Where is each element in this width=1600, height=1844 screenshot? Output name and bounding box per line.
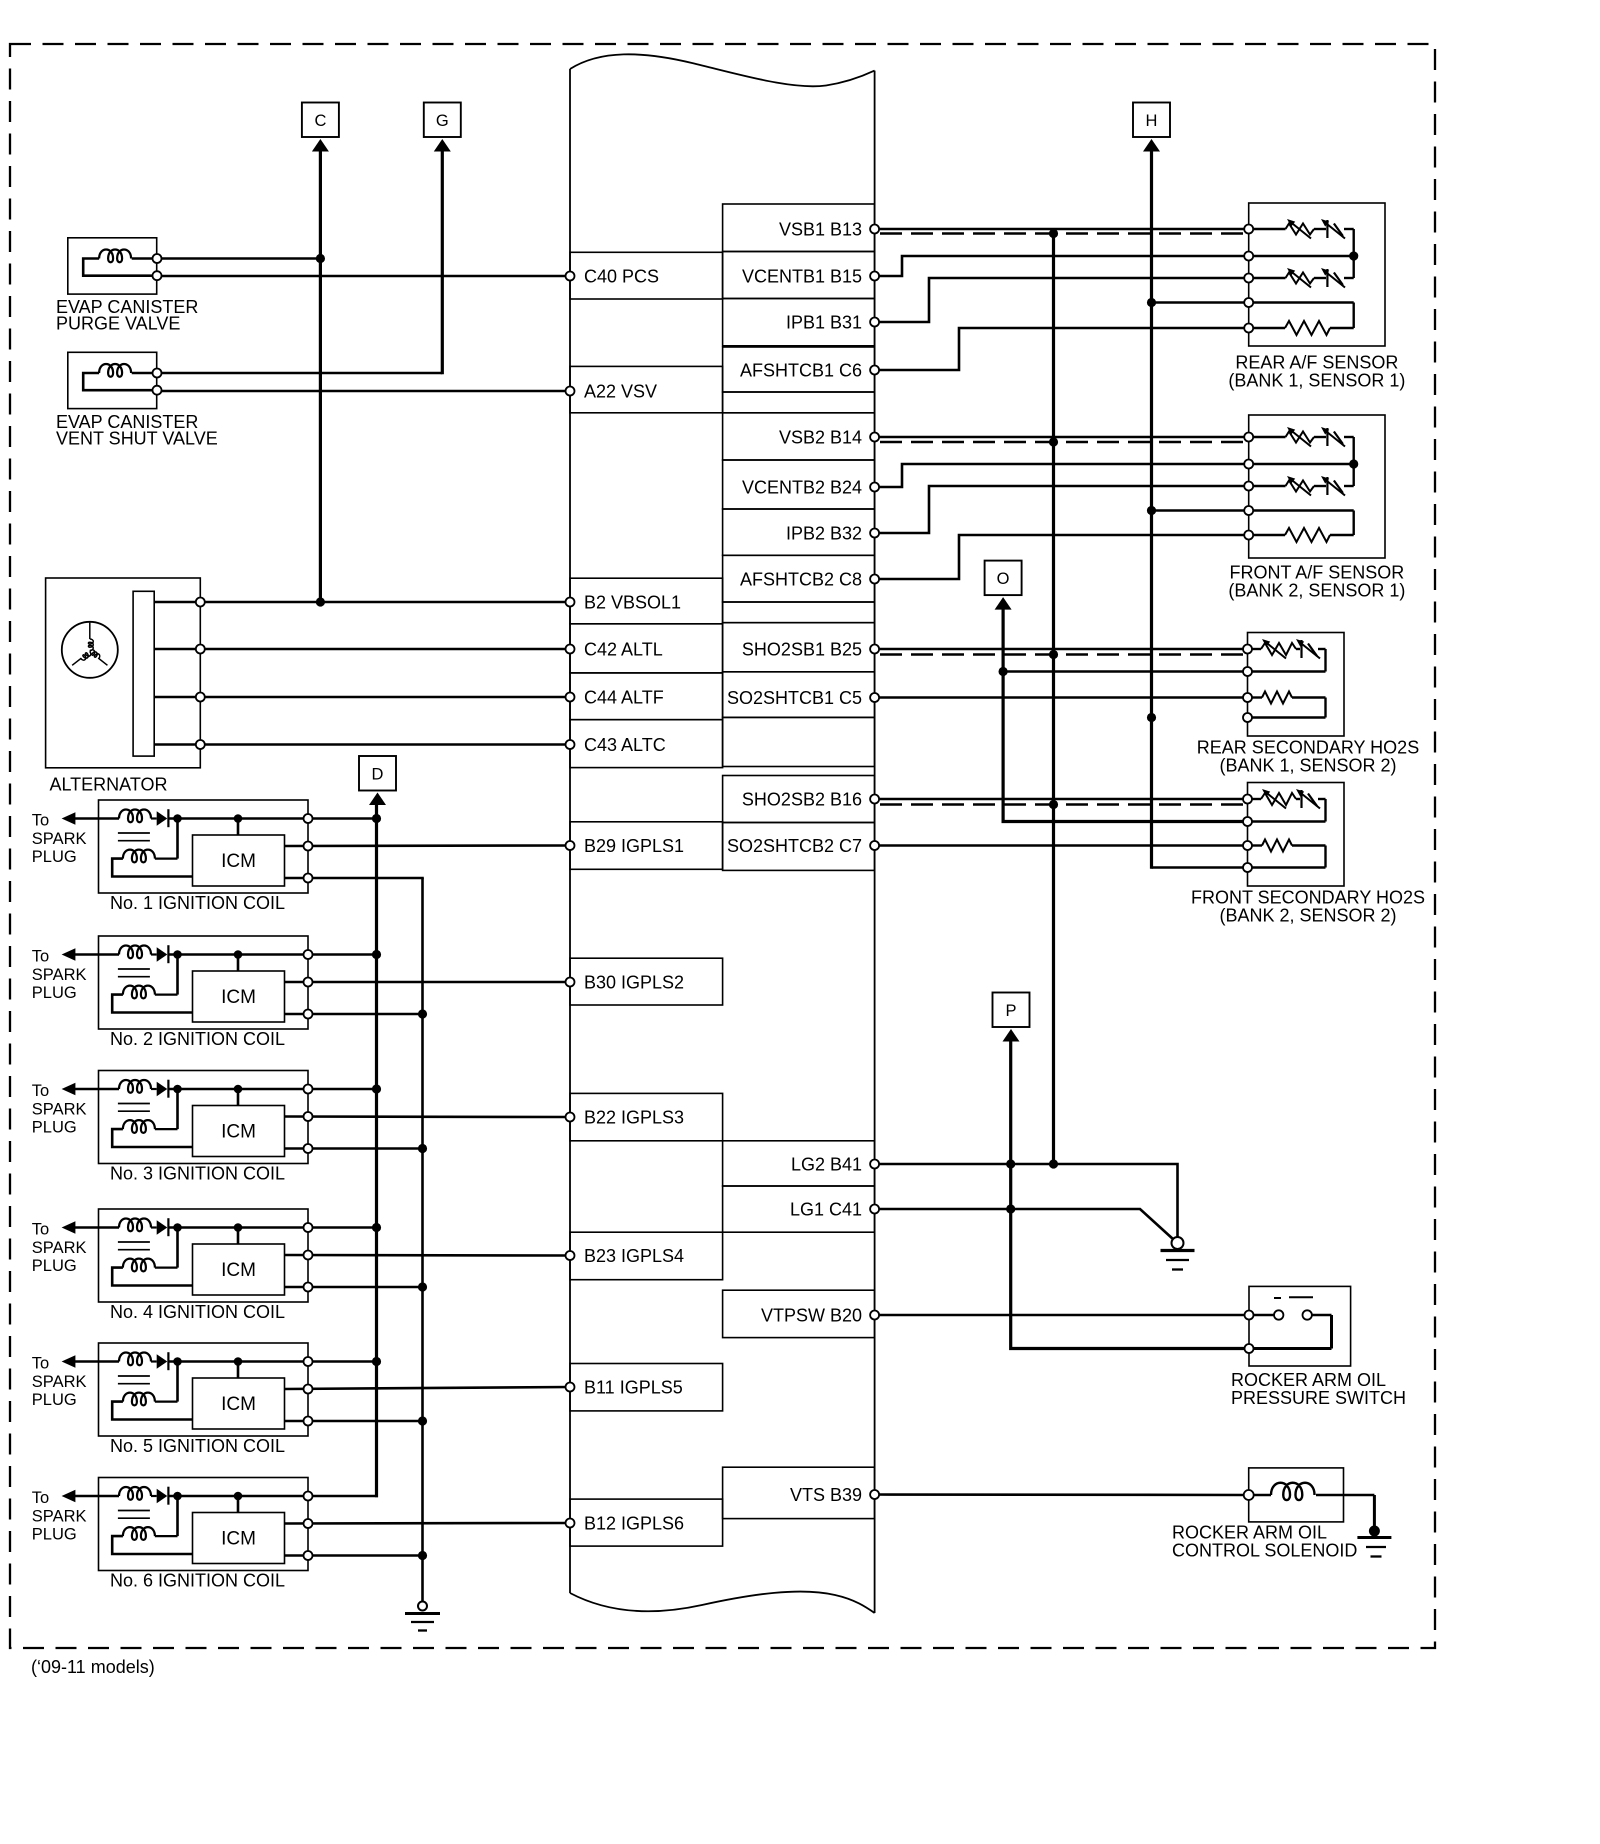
label REAR A/F SENSOR <box>1228 353 1405 391</box>
junction dot shield bus / LG2 B41 wire <box>1049 1159 1058 1168</box>
label EVAP CANISTER VENT SHUT VALVE <box>56 412 218 449</box>
wire coil 3 pin 3 to ground bus <box>285 1147 423 1150</box>
spark plug arrow coil 5 <box>62 1355 76 1368</box>
ICM module coil 6 <box>193 1496 285 1564</box>
ECM pin B2 VBSOL1 <box>566 598 575 607</box>
wire vent shut valve pin 1 to connector G stem <box>157 372 442 375</box>
svg-text:No. 2 IGNITION COIL: No. 2 IGNITION COIL <box>110 1029 285 1049</box>
svg-text:REAR SECONDARY HO2S: REAR SECONDARY HO2S <box>1197 738 1419 758</box>
svg-text:SHO2SB2 B16: SHO2SB2 B16 <box>742 790 862 810</box>
ECM pin cell B11 IGPLS5 <box>570 1364 723 1411</box>
svg-text:To: To <box>32 1082 49 1100</box>
svg-text:VTPSW B20: VTPSW B20 <box>761 1306 862 1326</box>
ECM body outline <box>570 54 875 1613</box>
junction dot O stem / rear secondary HO2S pin 2 wire <box>999 667 1008 676</box>
EVAP canister purge valve pin 1 <box>153 254 162 263</box>
ECM pin cell C44 ALTF <box>570 673 723 720</box>
svg-text:FRONT SECONDARY HO2S: FRONT SECONDARY HO2S <box>1191 888 1425 908</box>
junction dot ICM feed coil 1 <box>234 814 243 823</box>
wire coil 4 pin 2 (IGPLS4) to ECM <box>285 1254 571 1257</box>
junction dot H stem / front A-F sensor pin 4 <box>1147 506 1156 515</box>
label ALTERNATOR <box>50 775 168 795</box>
ECM pin SO2SHTCB2 C7 <box>870 841 879 850</box>
svg-text:SO2SHTCB1 C5: SO2SHTCB1 C5 <box>727 688 862 708</box>
svg-text:SPARK: SPARK <box>32 1508 87 1526</box>
ECM pin cell spacer cell <box>723 602 875 623</box>
ECM pin SHO2SB1 B25 <box>870 645 879 654</box>
wire coil 1 pin 3 to ground bus <box>285 877 424 880</box>
svg-text:ICM: ICM <box>221 1394 256 1415</box>
ECM pin C43 ALTC <box>566 740 575 749</box>
junction dot ground bus coil 4 <box>418 1282 427 1291</box>
rear secondary HO2S pin 1 <box>1243 645 1252 654</box>
ECM pin cell VCENTB2 B24 <box>723 460 875 509</box>
wire ECM AFSHTCB1 C6 to rear A/F pin 5 <box>875 328 1249 370</box>
rear secondary HO2S pin 2 <box>1243 667 1252 676</box>
ECM pin C40 PCS <box>566 272 575 281</box>
svg-text:LG2 B41: LG2 B41 <box>791 1155 862 1175</box>
junction dot ICM feed coil 5 <box>234 1357 243 1366</box>
wire ECM SO2SHTCB1 C5 to rear secondary HO2S pin 3 <box>875 696 1248 699</box>
shield VSB1 B13 <box>880 232 1248 234</box>
dashed page border <box>10 44 1435 1648</box>
ECM pin cell SO2SHTCB2 C7 <box>723 823 875 871</box>
svg-text:B2 VBSOL1: B2 VBSOL1 <box>584 593 681 613</box>
junction dot shield bus / VSB1 B13 shield <box>1049 229 1058 238</box>
svg-text:No. 3 IGNITION COIL: No. 3 IGNITION COIL <box>110 1164 285 1184</box>
label To SPARK PLUG (coil 4) <box>32 1221 87 1276</box>
svg-text:D: D <box>372 766 384 784</box>
wire ignition coil ground bus <box>421 878 424 1602</box>
coil 1 pin 2 <box>304 842 313 851</box>
ECM pin cell C43 ALTC <box>570 720 723 768</box>
svg-text:C40 PCS: C40 PCS <box>584 267 659 287</box>
front secondary HO2S pin 1 <box>1243 795 1252 804</box>
wire ECM LG2 B41 to chassis ground <box>875 1164 1178 1237</box>
ECM pin VSB2 B14 <box>870 433 879 442</box>
svg-text:VCENTB1 B15: VCENTB1 B15 <box>742 267 862 287</box>
ECM pin B29 IGPLS1 <box>566 841 575 850</box>
coil 3 pin 2 <box>304 1112 313 1121</box>
junction dot C stem / purge valve wire <box>316 254 325 263</box>
label To SPARK PLUG (coil 2) <box>32 948 87 1003</box>
junction dot H stem / rear A-F sensor pin 4 <box>1147 298 1156 307</box>
wire coil 2 pin 2 (IGPLS2) to ECM <box>285 981 571 984</box>
ignition coil No.4 <box>75 1209 308 1302</box>
rocker arm oil pressure switch <box>1249 1286 1351 1366</box>
solenoid pin 1 <box>1244 1490 1254 1500</box>
ECM pin cell B2 VBSOL1 <box>570 578 723 624</box>
ECM pin VCENTB1 B15 <box>870 272 879 281</box>
alternator pin 1 <box>196 598 205 607</box>
wire alternator pin 3 to ECM C44 ALTF <box>154 696 570 699</box>
wire shield drain bus (x=1053) down to LG2 B41 wire <box>1052 234 1055 1165</box>
ignition coil No.6 <box>75 1478 308 1571</box>
svg-text:SO2SHTCB2 C7: SO2SHTCB2 C7 <box>727 836 862 856</box>
wire alternator pin 1 to ECM B2 VBSOL1 <box>154 601 570 604</box>
ECM pin cell B22 IGPLS3 <box>570 1093 723 1140</box>
alternator pin 4 <box>196 740 205 749</box>
rear A/F sensor pin 2 <box>1244 252 1253 261</box>
junction dot P stem / LG2 B41 wire <box>1006 1159 1015 1168</box>
ground symbol (solenoid) <box>1357 1526 1391 1557</box>
svg-text:B11 IGPLS5: B11 IGPLS5 <box>584 1378 683 1398</box>
EVAP canister purge valve pin 2 <box>153 271 162 280</box>
front A/F sensor pin 2 <box>1244 460 1253 469</box>
label ROCKER ARM OIL CONTROL SOLENOID <box>1172 1523 1357 1561</box>
ground symbol (ignition coils) <box>405 1602 440 1631</box>
ICM module coil 4 <box>193 1228 285 1296</box>
front secondary HO2S <box>1248 783 1345 887</box>
label ROCKER ARM OIL PRESSURE SWITCH <box>1231 1370 1406 1408</box>
wire coil 2 pin 1 to D stem <box>308 953 377 956</box>
connector C <box>302 103 339 152</box>
svg-text:C42 ALTL: C42 ALTL <box>584 640 663 660</box>
ECM pin cell B12 IGPLS6 <box>570 1499 723 1546</box>
label EVAP CANISTER PURGE VALVE <box>56 297 198 334</box>
wire coil 6 pin 3 to ground bus <box>285 1554 423 1557</box>
wire coil 1 pin 2 (IGPLS1) to ECM <box>285 844 571 847</box>
svg-text:ICM: ICM <box>221 851 256 872</box>
junction dot ICM feed coil 4 <box>234 1223 243 1232</box>
svg-text:CONTROL SOLENOID: CONTROL SOLENOID <box>1172 1541 1357 1561</box>
wire ECM LG1 C41 to chassis ground <box>875 1209 1174 1240</box>
svg-text:To: To <box>32 1489 49 1507</box>
ECM pin cell LG2 B41 <box>723 1141 875 1186</box>
ECM pin IPB2 B32 <box>870 529 879 538</box>
alternator pin 2 <box>196 645 205 654</box>
shield SHO2SB1 B25 <box>880 653 1247 655</box>
svg-text:(BANK 1, SENSOR 2): (BANK 1, SENSOR 2) <box>1219 756 1396 776</box>
coil 3 pin 1 <box>304 1085 313 1094</box>
ECM pin A22 VSV <box>566 387 575 396</box>
ignition coil No.5 <box>75 1343 308 1436</box>
rear secondary HO2S <box>1248 633 1345 737</box>
front A/F sensor pin 3 <box>1244 482 1253 491</box>
front secondary HO2S pin 3 <box>1243 841 1252 850</box>
svg-text:PLUG: PLUG <box>32 1526 77 1544</box>
svg-text:(‘09-11 models): (‘09-11 models) <box>31 1657 155 1677</box>
label No. 5 IGNITION COIL <box>110 1436 285 1456</box>
svg-text:VSB1 B13: VSB1 B13 <box>779 220 862 240</box>
svg-text:O: O <box>997 570 1010 588</box>
ECM pin B23 IGPLS4 <box>566 1251 575 1260</box>
wire vent shut valve pin 2 to ECM A22 VSV <box>157 390 570 393</box>
ECM pin cell C42 ALTL <box>570 624 723 673</box>
wire ECM IPB2 B32 to front A/F pin 3 <box>875 486 1249 533</box>
svg-text:B12 IGPLS6: B12 IGPLS6 <box>584 1514 684 1534</box>
ECM pin cell B30 IGPLS2 <box>570 958 723 1005</box>
wire ECM SHO2SB1 B25 to rear secondary HO2S pin 1 <box>875 648 1248 651</box>
rear A/F sensor pin 1 <box>1244 225 1253 234</box>
spark plug arrow coil 4 <box>62 1221 76 1234</box>
junction dot D stem coil 3 <box>372 1084 381 1093</box>
svg-text:ICM: ICM <box>221 987 256 1008</box>
svg-text:(BANK 1, SENSOR 1): (BANK 1, SENSOR 1) <box>1228 371 1405 391</box>
rear secondary HO2S pin 4 <box>1243 713 1252 722</box>
svg-text:PLUG: PLUG <box>32 848 77 866</box>
ECM pin LG2 B41 <box>870 1160 879 1169</box>
front A/F sensor pin 4 <box>1244 506 1253 515</box>
front A/F sensor pin 1 <box>1244 433 1253 442</box>
svg-text:VSB2 B14: VSB2 B14 <box>779 428 862 448</box>
svg-text:SHO2SB1 B25: SHO2SB1 B25 <box>742 640 862 660</box>
wire coil 1 pin 1 to D stem <box>308 817 377 820</box>
ECM pin IPB1 B31 <box>870 318 879 327</box>
svg-text:ICM: ICM <box>221 1260 256 1281</box>
svg-text:PLUG: PLUG <box>32 1119 77 1137</box>
ECM pin AFSHTCB1 C6 <box>870 366 879 375</box>
ECM pin cell IPB2 B32 <box>723 509 875 555</box>
rocker switch pin 2 <box>1245 1344 1254 1353</box>
wire coil 3 pin 2 (IGPLS3) to ECM <box>285 1115 571 1118</box>
label No. 4 IGNITION COIL <box>110 1302 285 1322</box>
ECM pin VTPSW B20 <box>870 1311 879 1320</box>
solenoid valve EVAP canister vent shut valve <box>68 352 158 408</box>
coil 1 pin 3 <box>304 874 313 883</box>
svg-text:C44 ALTF: C44 ALTF <box>584 688 664 708</box>
wire ECM VCENTB1 B15 to rear A/F pin 2 <box>875 256 1249 276</box>
svg-text:IPB2 B32: IPB2 B32 <box>786 524 862 544</box>
wire O stem to rear secondary HO2S pin 2 <box>1003 670 1247 673</box>
front secondary HO2S pin 2 <box>1243 817 1252 826</box>
wire ECM SO2SHTCB2 C7 to front secondary HO2S pin 3 <box>875 844 1248 847</box>
ECM pin B12 IGPLS6 <box>566 1519 575 1528</box>
svg-text:PLUG: PLUG <box>32 984 77 1002</box>
shield VSB2 B14 <box>880 441 1248 443</box>
coil 5 pin 2 <box>304 1385 313 1394</box>
wire coil 4 pin 3 to ground bus <box>285 1286 423 1289</box>
front A/F sensor pin 5 <box>1244 531 1253 540</box>
junction dot ICM feed coil 2 <box>234 950 243 959</box>
connector D <box>359 756 396 805</box>
wire connector G stem down to vent shut valve wire <box>441 150 444 374</box>
ECM pin cell SHO2SB2 B16 <box>723 776 875 823</box>
ECM pin SO2SHTCB1 C5 <box>870 693 879 702</box>
spark plug arrow coil 3 <box>62 1083 76 1096</box>
junction dot P stem / LG1 C41 wire <box>1006 1204 1015 1213</box>
svg-text:G: G <box>436 112 449 130</box>
wire ECM VSB2 B14 to front A/F pin 1 <box>875 436 1249 439</box>
wire alternator pin 2 to ECM C42 ALTL <box>154 648 570 651</box>
svg-text:ICM: ICM <box>221 1529 256 1550</box>
svg-text:No. 5 IGNITION COIL: No. 5 IGNITION COIL <box>110 1436 285 1456</box>
note 09-11 models <box>31 1657 155 1677</box>
ECM pin B11 IGPLS5 <box>566 1383 575 1392</box>
svg-text:LG1 C41: LG1 C41 <box>790 1200 862 1220</box>
ECM pin cell IPB1 B31 <box>723 299 875 346</box>
wire ECM AFSHTCB2 C8 to front A/F pin 5 <box>875 535 1249 579</box>
svg-text:B23 IGPLS4: B23 IGPLS4 <box>584 1246 684 1266</box>
ECM pin cell spacer cell <box>723 717 875 766</box>
rear secondary HO2S pin 3 <box>1243 693 1252 702</box>
wire ECM VTS B39 to solenoid pin 1 <box>875 1493 1249 1496</box>
ECM pin LG1 C41 <box>870 1205 879 1214</box>
ECM pin cell AFSHTCB1 C6 <box>723 347 875 392</box>
label No. 6 IGNITION COIL <box>110 1571 285 1591</box>
svg-text:B29 IGPLS1: B29 IGPLS1 <box>584 836 684 856</box>
wire ECM SHO2SB2 B16 to front secondary HO2S pin 1 <box>875 798 1248 801</box>
label No. 2 IGNITION COIL <box>110 1029 285 1049</box>
ECM pin VTS B39 <box>870 1490 879 1499</box>
rocker arm oil control solenoid <box>1249 1468 1375 1531</box>
ICM module coil 3 <box>193 1089 285 1157</box>
label To SPARK PLUG (coil 1) <box>32 812 87 867</box>
rear A/F sensor pin 4 <box>1244 298 1253 307</box>
ECM pin cell C40 PCS <box>570 252 723 299</box>
wire coil 5 pin 3 to ground bus <box>285 1420 423 1423</box>
coil 2 pin 1 <box>304 950 313 959</box>
label FRONT SECONDARY HO2S <box>1191 888 1425 926</box>
rear A/F sensor <box>1249 203 1385 346</box>
svg-text:To: To <box>32 948 49 966</box>
wire purge valve pin 2 to ECM C40 PCS <box>157 275 570 278</box>
ECM pin cell SO2SHTCB1 C5 <box>723 672 875 718</box>
ignition coil No.1 <box>75 800 308 893</box>
svg-text:To: To <box>32 1221 49 1239</box>
junction dot ICM feed coil 3 <box>234 1085 243 1094</box>
label FRONT A/F SENSOR <box>1228 563 1405 601</box>
junction dot D stem coil 2 <box>372 950 381 959</box>
chassis ground symbol G101 <box>1161 1237 1195 1270</box>
wire ECM VCENTB2 B24 to front A/F pin 2 <box>875 464 1249 487</box>
EVAP canister vent shut valve pin 2 <box>153 386 162 395</box>
wire H stem to rear A/F pin 4 <box>1152 301 1249 304</box>
svg-text:AFSHTCB2 C8: AFSHTCB2 C8 <box>740 570 862 590</box>
wire H stem to front A/F pin 4 <box>1152 509 1249 512</box>
ECM pin VSB1 B13 <box>870 225 879 234</box>
solenoid valve EVAP canister purge valve <box>68 238 158 294</box>
EVAP canister vent shut valve pin 1 <box>153 369 162 378</box>
ECM pin cell A22 VSV <box>570 366 723 412</box>
wire ECM IPB1 B31 to rear A/F pin 3 <box>875 278 1249 322</box>
svg-text:ROCKER ARM OIL: ROCKER ARM OIL <box>1231 1370 1386 1390</box>
wire connector C stem down to B2 VBSOL1 wire <box>319 150 322 602</box>
coil 2 pin 2 <box>304 978 313 987</box>
coil 6 pin 2 <box>304 1519 313 1528</box>
ECM pin cell LG1 C41 <box>723 1186 875 1232</box>
wire connector O stem down to front secondary HO2S pin 2 <box>1003 608 1247 822</box>
coil 5 pin 1 <box>304 1357 313 1366</box>
ECM pin cell VTS B39 <box>723 1467 875 1518</box>
junction dot shield bus / VSB2 B14 shield <box>1049 437 1058 446</box>
svg-text:ROCKER ARM OIL: ROCKER ARM OIL <box>1172 1523 1327 1543</box>
svg-text:SPARK: SPARK <box>32 1373 87 1391</box>
shield SHO2SB2 B16 <box>880 803 1247 805</box>
svg-text:PLUG: PLUG <box>32 1257 77 1275</box>
wire connector D stem down to No.6 ignition coil pin 1 <box>375 804 378 1498</box>
label No. 3 IGNITION COIL <box>110 1164 285 1184</box>
connector G <box>424 103 461 152</box>
svg-text:No. 1 IGNITION COIL: No. 1 IGNITION COIL <box>110 893 285 913</box>
junction dot ICM feed coil 6 <box>234 1492 243 1501</box>
connector H <box>1133 103 1170 152</box>
svg-text:PLUG: PLUG <box>32 1391 77 1409</box>
wire coil 3 pin 1 to D stem <box>308 1088 377 1091</box>
svg-text:AFSHTCB1 C6: AFSHTCB1 C6 <box>740 361 862 381</box>
front A/F sensor <box>1249 415 1385 558</box>
svg-text:VCENTB2 B24: VCENTB2 B24 <box>742 478 862 498</box>
svg-text:A22 VSV: A22 VSV <box>584 382 657 402</box>
ECM pin cell spacer cell <box>723 392 875 413</box>
ECM pin C44 ALTF <box>566 693 575 702</box>
ECM pin SHO2SB2 B16 <box>870 795 879 804</box>
ECM pin B30 IGPLS2 <box>566 978 575 987</box>
coil 6 pin 1 <box>304 1492 313 1501</box>
alternator <box>46 578 201 768</box>
coil 4 pin 1 <box>304 1223 313 1232</box>
svg-text:SPARK: SPARK <box>32 1101 87 1119</box>
svg-text:P: P <box>1005 1002 1016 1020</box>
ICM module coil 2 <box>193 955 285 1023</box>
ECM pin cell VCENTB1 B15 <box>723 252 875 299</box>
junction dot ground bus coil 6 <box>418 1551 427 1560</box>
junction dot H stem / rear secondary HO2S pin 4 <box>1147 713 1156 722</box>
svg-text:SPARK: SPARK <box>32 830 87 848</box>
ECM pin cell VSB2 B14 <box>723 413 875 460</box>
wire coil 4 pin 1 to D stem <box>308 1226 377 1229</box>
wire connector P stem down to rocker arm oil pressure switch pin 2 <box>1011 1040 1249 1349</box>
connector O <box>985 561 1022 610</box>
wire alternator pin 4 to ECM C43 ALTC <box>154 743 570 746</box>
ignition coil No.2 <box>75 936 308 1029</box>
rocker switch pin 1 <box>1245 1311 1254 1320</box>
junction dot C stem / B2 VBSOL1 wire <box>316 597 325 606</box>
coil 4 pin 3 <box>304 1283 313 1292</box>
wire coil 6 pin 1 to D stem corner <box>308 1495 378 1498</box>
svg-text:B22 IGPLS3: B22 IGPLS3 <box>584 1108 684 1128</box>
svg-text:VTS B39: VTS B39 <box>790 1485 862 1505</box>
junction dot shield bus / SHO2SB2 B16 shield <box>1049 800 1058 809</box>
alternator pin 3 <box>196 693 205 702</box>
ECM pin cell SHO2SB1 B25 <box>723 623 875 672</box>
wire ECM VSB1 B13 to rear A/F pin 1 <box>875 228 1249 231</box>
junction dot shield bus / SHO2SB1 B25 shield <box>1049 650 1058 659</box>
svg-text:To: To <box>32 1355 49 1373</box>
junction dot ground bus coil 2 <box>418 1009 427 1018</box>
svg-text:PURGE VALVE: PURGE VALVE <box>56 314 180 334</box>
ECM pin cell AFSHTCB2 C8 <box>723 555 875 602</box>
spark plug arrow coil 1 <box>62 812 76 825</box>
coil 6 pin 3 <box>304 1551 313 1560</box>
wire purge valve pin 1 to connector C stem <box>157 257 320 260</box>
spark plug arrow coil 2 <box>62 948 76 961</box>
junction dot ground bus coil 5 <box>418 1416 427 1425</box>
ICM module coil 1 <box>193 819 285 887</box>
ECM pin VCENTB2 B24 <box>870 483 879 492</box>
connector P <box>993 993 1030 1042</box>
rear A/F sensor pin 3 <box>1244 274 1253 283</box>
coil 2 pin 3 <box>304 1010 313 1019</box>
svg-text:H: H <box>1146 112 1158 130</box>
ECM pin cell VTPSW B20 <box>723 1290 875 1337</box>
wire coil 2 pin 3 to ground bus <box>285 1013 423 1016</box>
label No. 1 IGNITION COIL <box>110 893 285 913</box>
wire coil 6 pin 2 (IGPLS6) to ECM <box>285 1522 571 1525</box>
svg-text:PRESSURE SWITCH: PRESSURE SWITCH <box>1231 1388 1406 1408</box>
coil 3 pin 3 <box>304 1144 313 1153</box>
spark plug arrow coil 6 <box>62 1490 76 1503</box>
ECM pin C42 ALTL <box>566 645 575 654</box>
svg-text:(BANK 2, SENSOR 2): (BANK 2, SENSOR 2) <box>1219 906 1396 926</box>
junction dot D stem coil 4 <box>372 1223 381 1232</box>
svg-text:SPARK: SPARK <box>32 1239 87 1257</box>
label To SPARK PLUG (coil 6) <box>32 1489 87 1544</box>
coil 4 pin 2 <box>304 1251 313 1260</box>
svg-text:ICM: ICM <box>221 1122 256 1143</box>
svg-text:No. 6 IGNITION COIL: No. 6 IGNITION COIL <box>110 1571 285 1591</box>
ECM pin B22 IGPLS3 <box>566 1113 575 1122</box>
